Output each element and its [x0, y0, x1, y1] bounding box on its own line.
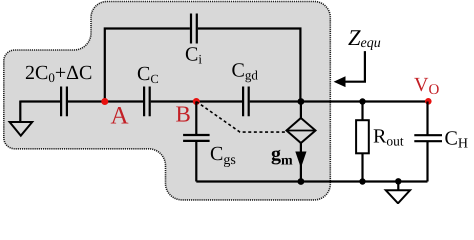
svg-text:CH: CH	[445, 128, 468, 152]
capacitor 2C0+dC	[25, 62, 92, 116]
svg-text:2C0+ΔC: 2C0+ΔC	[25, 62, 92, 85]
wire top loop	[105, 29, 301, 102]
svg-text:VO: VO	[414, 74, 439, 98]
capacitor Cgs	[183, 102, 236, 182]
node A	[101, 98, 128, 130]
dependent current source gm	[271, 102, 316, 182]
dashed control line from node B to gm source	[196, 102, 286, 133]
wire bottom horizontal line	[196, 180, 427, 182]
svg-text:B: B	[176, 102, 191, 127]
capacitor Ci	[185, 14, 202, 67]
junction dot gm bottom	[298, 178, 305, 185]
node B	[176, 98, 200, 127]
svg-text:Rout: Rout	[373, 126, 404, 149]
svg-text:Zequ: Zequ	[348, 25, 381, 51]
ground bottom right	[386, 178, 410, 203]
resistor Rout	[356, 102, 404, 182]
label Zequ with arrow	[334, 25, 381, 87]
node VO	[414, 74, 439, 105]
svg-text:A: A	[111, 103, 129, 130]
wire main horizontal line	[20, 100, 428, 102]
shaded region of equivalent impedance Zequ	[4, 1, 331, 199]
junction dot Rout top	[359, 98, 365, 104]
junction dot gm top	[298, 98, 305, 105]
capacitor Cc	[137, 63, 159, 116]
capacitor Cgd	[232, 60, 259, 117]
junction dot Rout bottom	[359, 178, 365, 184]
ground left	[10, 101, 33, 136]
capacitor CH	[414, 102, 468, 182]
